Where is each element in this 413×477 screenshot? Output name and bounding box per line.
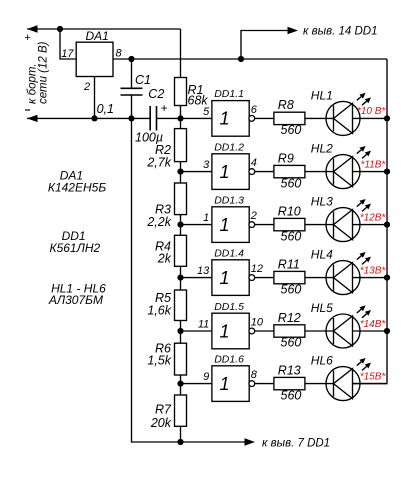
LED HL5 triangle — [334, 316, 353, 346]
svg-text:DA1: DA1 — [86, 29, 109, 43]
svg-text:560: 560 — [281, 176, 302, 190]
node: divider tap row 5 — [177, 328, 183, 334]
node: pin2 on common rail — [91, 115, 97, 121]
wire: R10 to LED HL3 — [305, 224, 334, 226]
wire: R8 to LED HL1 — [305, 117, 334, 119]
svg-text:0,1: 0,1 — [97, 102, 114, 116]
svg-text:R11: R11 — [278, 257, 300, 271]
wire: R1 bottom to divider top — [180, 106, 182, 119]
svg-text:1: 1 — [220, 374, 230, 394]
node: bus junction row 3 — [384, 222, 390, 228]
node: divider tap row 6 — [177, 381, 183, 387]
inverter DD1.6 — [212, 366, 249, 402]
wire: divider lead below R5 — [180, 321, 182, 332]
node: C1 bottom on common rail — [128, 115, 134, 121]
resistor R7 — [175, 395, 187, 426]
svg-text:560: 560 — [281, 282, 302, 296]
LED HL6 cathode bar — [333, 371, 335, 397]
LED HL5 — [326, 314, 360, 348]
svg-text:9: 9 — [203, 371, 209, 383]
svg-text:4: 4 — [251, 157, 257, 169]
svg-text:АЛ307БМ: АЛ307БМ — [48, 293, 103, 307]
resistor R13 — [274, 377, 305, 389]
inverter bubble DD1.5 — [249, 328, 255, 334]
resistor R6 — [175, 343, 187, 375]
wire: input to DD1.3 — [181, 224, 212, 226]
node: divider tap row 2 — [177, 169, 183, 175]
svg-text:*15В*: *15В* — [360, 371, 387, 382]
node: branch to DD1 pin 14 — [238, 56, 244, 62]
wire: DD1.6 output to R13 — [255, 383, 274, 385]
svg-text:HL1: HL1 — [311, 88, 333, 102]
wire: divider lead above R7 — [180, 384, 182, 395]
wire: DD1.5 output to R12 — [255, 330, 274, 332]
resistor R12 — [274, 325, 305, 337]
svg-text:R10: R10 — [278, 204, 301, 218]
node: junction top rail to DA1 pin17 — [57, 26, 63, 32]
LED HL6 — [326, 367, 360, 401]
wire: branch up to pin14 arrow — [241, 31, 290, 60]
inverter DD1.4 — [212, 260, 249, 296]
wire: divider lead above R5 — [180, 278, 182, 290]
capacitor C1 plates — [121, 87, 143, 89]
svg-text:к выв. 14 DD1: к выв. 14 DD1 — [303, 26, 377, 38]
svg-text:DD1.4: DD1.4 — [214, 247, 244, 259]
LED HL3 cathode bar — [333, 212, 335, 238]
LED HL6 triangle — [334, 369, 353, 399]
inverter DD1.3 — [212, 207, 249, 243]
resistor R9 — [274, 165, 305, 177]
node: bus junction row 4 — [384, 275, 390, 281]
label: minus sign — [25, 109, 30, 111]
svg-text:C2: C2 — [148, 87, 164, 101]
terminal arrow: plus supply — [27, 25, 38, 32]
svg-text:5: 5 — [203, 106, 210, 118]
svg-text:HL5: HL5 — [311, 301, 333, 315]
resistor R1 — [175, 78, 187, 106]
inverter bubble DD1.2 — [249, 169, 255, 175]
LED HL1 — [326, 101, 360, 135]
resistor R10 — [274, 218, 305, 230]
resistor R11 — [274, 271, 305, 283]
node: bus junction row 1 — [384, 115, 390, 121]
node: bus junction row 2 — [384, 169, 390, 175]
svg-text:R8: R8 — [278, 98, 294, 112]
LED HL2 — [326, 155, 360, 189]
resistor R8 — [274, 112, 305, 124]
wire: DA1 pin 8 output rail — [113, 58, 387, 60]
svg-text:560: 560 — [281, 336, 302, 350]
svg-text:2: 2 — [250, 210, 257, 222]
light emission arrows HL6 — [357, 362, 361, 366]
wire: LED HL3 to bus — [353, 224, 388, 226]
svg-text:560: 560 — [281, 388, 302, 402]
voltage regulator DA1 — [76, 42, 113, 76]
svg-text:560: 560 — [281, 123, 302, 137]
svg-text:HL3: HL3 — [311, 195, 333, 209]
inverter bubble DD1.1 — [249, 116, 255, 122]
svg-text:DD1.3: DD1.3 — [214, 194, 244, 206]
wire: divider lead above R6 — [180, 331, 182, 343]
inverter DD1.2 — [212, 154, 249, 190]
svg-text:*14В*: *14В* — [360, 319, 387, 330]
wire: DD1.2 output to R9 — [255, 171, 274, 173]
wire: LED HL5 to bus — [353, 330, 388, 332]
svg-text:DD1.1: DD1.1 — [214, 88, 244, 100]
wire: DD1.3 output to R10 — [255, 224, 274, 226]
svg-text:R7: R7 — [155, 403, 172, 417]
node: divider top junction — [177, 115, 183, 121]
wire: DD1.4 output to R11 — [255, 277, 274, 279]
LED HL2 triangle — [334, 157, 353, 187]
svg-text:C1: C1 — [135, 73, 151, 87]
wire: to DA1 pin 17 — [60, 29, 76, 59]
svg-text:13: 13 — [197, 265, 210, 277]
node: divider tap row 4 — [177, 275, 183, 281]
wire: LED supply bus — [353, 59, 388, 384]
light emission arrows HL1 — [357, 97, 361, 101]
svg-text:2,7k: 2,7k — [146, 155, 171, 169]
resistor R3 — [175, 183, 187, 215]
svg-text:DD1.6: DD1.6 — [214, 353, 244, 365]
svg-text:3: 3 — [203, 159, 210, 171]
svg-text:*12В*: *12В* — [360, 212, 387, 223]
wire: R12 to LED HL5 — [305, 330, 334, 332]
svg-text:1: 1 — [203, 212, 209, 224]
resistor R2 — [175, 129, 187, 162]
wire: input to DD1.4 — [181, 277, 212, 279]
wire: input to DD1.6 — [181, 383, 212, 385]
node: divider tap row 3 — [177, 222, 183, 228]
wire: LED HL1 to bus — [353, 117, 388, 119]
svg-text:8: 8 — [251, 369, 258, 381]
wire: DD1.1 output to R8 — [255, 117, 274, 119]
node: bus junction row 5 — [384, 328, 390, 334]
svg-text:DD1.5: DD1.5 — [214, 301, 244, 313]
inverter bubble DD1.3 — [249, 222, 255, 228]
svg-text:11: 11 — [198, 319, 209, 331]
wire: LED HL4 to bus — [353, 277, 388, 279]
light emission arrows HL5 — [357, 309, 361, 313]
inverter bubble DD1.4 — [249, 275, 255, 281]
wire: R13 to LED HL6 — [305, 383, 334, 385]
svg-text:12: 12 — [251, 263, 263, 275]
wire: input to DD1.2 — [181, 171, 212, 173]
resistor R5 — [175, 290, 187, 321]
svg-text:к выв. 7 DD1: к выв. 7 DD1 — [262, 438, 330, 450]
node: divider bottom junction — [177, 439, 183, 445]
wire: LED HL2 to bus — [353, 171, 388, 173]
LED HL3 triangle — [334, 210, 353, 240]
svg-text:8: 8 — [116, 48, 123, 60]
svg-text:DD1.2: DD1.2 — [214, 141, 244, 153]
LED HL3 — [326, 208, 360, 242]
LED HL4 triangle — [334, 263, 353, 293]
svg-text:HL2: HL2 — [311, 142, 333, 156]
svg-text:1: 1 — [220, 215, 230, 235]
wire: DA1 pin 2 to common rail — [94, 77, 96, 119]
capacitor C2 plates — [149, 106, 151, 131]
svg-text:1,5k: 1,5k — [147, 354, 171, 368]
wire: common rail down and to к выв.7 — [132, 118, 247, 442]
wire: divider lead below R4 — [180, 266, 182, 277]
light emission arrows HL4 — [357, 256, 361, 260]
wire: input to DD1.5 — [181, 330, 212, 332]
LED HL5 cathode bar — [333, 318, 335, 344]
LED HL2 cathode bar — [333, 159, 335, 185]
node: C1 tap on output rail — [128, 56, 134, 62]
wire: 12V feed to R1 (crosses output rail) — [180, 29, 182, 78]
svg-text:2k: 2k — [157, 252, 172, 266]
svg-text:R9: R9 — [278, 151, 294, 165]
svg-text:20k: 20k — [150, 416, 172, 430]
inverter DD1.1 — [212, 101, 249, 137]
wire: divider lead below R2 — [180, 162, 182, 172]
svg-text:R13: R13 — [278, 363, 301, 377]
resistor R4 — [175, 235, 187, 266]
svg-text:2,2k: 2,2k — [146, 215, 171, 229]
svg-text:1: 1 — [220, 268, 230, 288]
capacitor C1 leads — [131, 59, 133, 88]
svg-text:HL6: HL6 — [311, 354, 333, 368]
wire: divider lead above R4 — [180, 225, 182, 236]
svg-text:К561ЛН2: К561ЛН2 — [50, 241, 101, 255]
svg-text:+: + — [161, 103, 168, 115]
svg-text:HL4: HL4 — [311, 248, 333, 262]
svg-text:1: 1 — [220, 162, 230, 182]
LED HL1 cathode bar — [333, 105, 335, 131]
svg-text:1,6k: 1,6k — [147, 304, 171, 318]
wire: divider lead above R2 — [180, 118, 182, 128]
LED HL4 cathode bar — [333, 265, 335, 291]
svg-text:1: 1 — [220, 321, 230, 341]
svg-text:К142ЕН5Б: К142ЕН5Б — [48, 181, 106, 195]
svg-text:1: 1 — [220, 109, 230, 129]
svg-text:560: 560 — [281, 229, 302, 243]
svg-text:17: 17 — [61, 48, 74, 60]
wire: common rail right part to DD1.1 input — [157, 117, 212, 119]
inverter bubble DD1.6 — [249, 381, 255, 387]
wire: divider lead below R6 — [180, 375, 182, 384]
wire: LED HL6 to bus — [353, 383, 388, 385]
light emission arrows HL3 — [357, 203, 361, 207]
LED HL4 — [326, 261, 360, 295]
wire: divider lead below R7 — [180, 426, 182, 442]
wire: divider lead above R3 — [180, 172, 182, 183]
svg-text:*13В*: *13В* — [360, 265, 387, 276]
svg-text:2: 2 — [83, 81, 90, 93]
svg-text:*10 В*: *10 В* — [357, 106, 386, 117]
svg-text:*11В*: *11В* — [360, 159, 386, 170]
inverter DD1.5 — [212, 313, 249, 349]
LED HL1 triangle — [334, 103, 353, 133]
svg-text:10: 10 — [251, 317, 264, 329]
svg-text:6: 6 — [251, 104, 258, 116]
wire: R11 to LED HL4 — [305, 277, 334, 279]
light emission arrows HL2 — [357, 150, 361, 154]
terminal arrow: minus supply — [27, 115, 38, 122]
wire: divider lead below R3 — [180, 215, 182, 225]
svg-text:сети (12 В): сети (12 В) — [38, 41, 50, 104]
svg-text:R12: R12 — [278, 311, 301, 325]
terminal arrow: к выв. 14 DD1 — [288, 27, 299, 34]
svg-text:+: + — [24, 32, 31, 44]
wire: R9 to LED HL2 — [305, 171, 334, 173]
terminal arrow: к выв. 7 DD1 — [245, 438, 256, 445]
wire: +12V top rail — [27, 28, 181, 30]
wire: common rail left part — [27, 117, 150, 119]
